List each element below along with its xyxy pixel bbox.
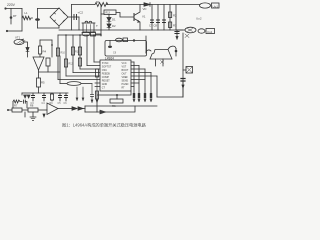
svg-text:R5: R5 xyxy=(41,81,45,85)
svg-text:R4: R4 xyxy=(43,50,47,54)
svg-text:D2: D2 xyxy=(112,24,116,28)
svg-text:R3: R3 xyxy=(173,24,177,28)
svg-text:D1: D1 xyxy=(112,18,116,22)
svg-text:220V: 220V xyxy=(7,3,16,7)
svg-text:R10: R10 xyxy=(61,52,66,55)
svg-text:+C2: +C2 xyxy=(78,11,84,15)
svg-text:VD: VD xyxy=(143,7,147,11)
svg-text:VT1: VT1 xyxy=(15,36,21,40)
svg-text:V1: V1 xyxy=(142,15,146,19)
svg-text:R1: R1 xyxy=(96,0,100,4)
svg-text:R2: R2 xyxy=(173,14,177,18)
svg-text:RT: RT xyxy=(13,14,17,18)
svg-text:R6: R6 xyxy=(112,104,116,108)
svg-text:T: T xyxy=(96,24,98,28)
svg-text:R7: R7 xyxy=(14,104,18,108)
svg-text:Uo2: Uo2 xyxy=(196,17,202,21)
svg-text:L1: L1 xyxy=(25,11,29,15)
svg-text:Uo1: Uo1 xyxy=(213,4,219,8)
svg-text:C7 C8: C7 C8 xyxy=(149,24,157,28)
svg-text:Uo2: Uo2 xyxy=(207,30,213,34)
svg-text:R12: R12 xyxy=(69,63,74,66)
svg-text:图1：L4964A构成的单端开关式稳压电源电路: 图1：L4964A构成的单端开关式稳压电源电路 xyxy=(62,122,147,129)
svg-text:R13: R13 xyxy=(106,12,111,15)
svg-text:RT: RT xyxy=(122,87,126,90)
svg-text:L4964: L4964 xyxy=(105,56,114,60)
svg-text:R11: R11 xyxy=(75,51,80,54)
svg-text:CT: CT xyxy=(102,87,106,90)
